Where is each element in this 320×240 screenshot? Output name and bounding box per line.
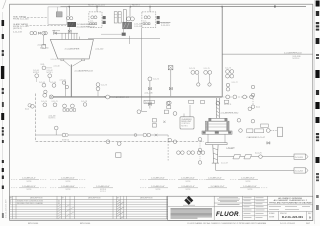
valve V22 below header bbox=[148, 103, 151, 106]
svg-text:2-CLASS-08-4": 2-CLASS-08-4" bbox=[61, 185, 75, 188]
instrument bubble FI-1 bbox=[30, 31, 33, 34]
svg-text:2-CL-68: 2-CL-68 bbox=[228, 147, 235, 149]
SK2 solenoid squares bbox=[143, 23, 145, 25]
wire SK2 out bbox=[160, 21, 171, 23]
left edge hook bbox=[3, 0, 6, 9]
SK2 valve stack (dark) bbox=[157, 16, 160, 19]
instrument bubble PI-11 bbox=[42, 66, 46, 70]
svg-text:2-CL-204: 2-CL-204 bbox=[295, 171, 303, 173]
right edge mark 6 bbox=[315, 70, 319, 78]
bubble pair XA-51 bbox=[177, 151, 181, 155]
svg-text:REVISED PER FIELD CHANGE: REVISED PER FIELD CHANGE bbox=[17, 202, 44, 205]
company address micro text bbox=[217, 197, 240, 202]
left edge mark 9 bbox=[2, 140, 4, 143]
positioner bubbles CV1 bbox=[66, 17, 69, 20]
svg-text:2-CL: 2-CL bbox=[256, 107, 260, 109]
skid box SK1 (dashed) bbox=[89, 12, 102, 28]
left edge mark 1 bbox=[2, 20, 5, 26]
svg-text:2-CLASS-13-4": 2-CLASS-13-4" bbox=[243, 185, 257, 188]
bubble LS-1 bbox=[54, 126, 58, 130]
svg-text:2-CLASS-06-4": 2-CLASS-06-4" bbox=[241, 177, 255, 180]
svg-text:NOTE 3: NOTE 3 bbox=[132, 5, 140, 7]
stems and small bubbles bbox=[197, 74, 199, 82]
revision table hatch strip left bbox=[57, 205, 74, 219]
bubble HB2 bbox=[216, 101, 220, 105]
circle CR1 bbox=[266, 129, 270, 133]
right edge mark 13 bbox=[316, 195, 319, 198]
dashed drop wire x168 bbox=[167, 135, 169, 161]
disclaimer paragraph (micro text) bbox=[171, 208, 213, 218]
continuation label row1 c6 bbox=[230, 177, 258, 183]
bubbles lower left bbox=[168, 138, 172, 142]
wire drop to SK2 bbox=[149, 7, 151, 12]
bubble TI-21 bbox=[148, 77, 152, 81]
svg-text:SCALE: SCALE bbox=[269, 212, 275, 215]
off-page connector box A bbox=[294, 154, 306, 159]
wire bottom manifold bbox=[88, 37, 160, 39]
signal wire y135 bbox=[36, 134, 168, 136]
svg-text:2-CLASS-12-4": 2-CLASS-12-4" bbox=[211, 185, 225, 188]
top signal line bbox=[61, 6, 307, 8]
continuation label row2 c1 bbox=[11, 185, 47, 191]
hand switch box HS2 bbox=[255, 129, 264, 133]
instrument bubble HV-44 bbox=[250, 95, 254, 99]
rule under title bbox=[268, 204, 314, 206]
signature field labels bbox=[244, 197, 265, 218]
box B4 bbox=[224, 100, 228, 103]
title block outer bbox=[168, 196, 313, 220]
LT seal pot box bbox=[42, 45, 46, 49]
inline device D3 bbox=[123, 10, 126, 23]
svg-text:2-CLASSIFIER-132: 2-CLASSIFIER-132 bbox=[77, 25, 96, 28]
right edge mark 10 bbox=[316, 133, 319, 135]
valve V23 bbox=[169, 87, 172, 90]
svg-text:2-CL-64: 2-CL-64 bbox=[145, 102, 152, 104]
sub caption micro text bbox=[218, 203, 240, 206]
svg-text:2-CLASS-03-4": 2-CLASS-03-4" bbox=[151, 177, 165, 180]
instrument bubble PI-15 bbox=[52, 84, 56, 88]
svg-text:2-CL-71: 2-CL-71 bbox=[52, 101, 58, 103]
svg-text:2-CL-78: 2-CL-78 bbox=[81, 101, 87, 103]
continuation label row1 c1 bbox=[11, 177, 47, 183]
NB1 inner drop wire bbox=[56, 7, 58, 12]
svg-text:2-CL-72: 2-CL-72 bbox=[153, 79, 159, 81]
signature fields grid bbox=[243, 196, 268, 220]
stacked squares S2 bbox=[152, 119, 156, 123]
svg-text:2-CL-73: 2-CL-73 bbox=[101, 84, 107, 86]
svg-text:2-CLASS-11-4": 2-CLASS-11-4" bbox=[181, 185, 195, 188]
svg-text:NONE: NONE bbox=[269, 217, 275, 219]
right edge mark 1 bbox=[316, 1, 320, 7]
bottom wire A to right edge bbox=[218, 156, 294, 158]
instrument bubble PI-17 bbox=[65, 85, 68, 88]
wire drop to pump P1 bbox=[129, 7, 131, 17]
line flag F1 bbox=[233, 155, 241, 159]
continuation label row2 c2 bbox=[50, 185, 86, 191]
svg-text:NOTE 9: NOTE 9 bbox=[100, 191, 106, 193]
svg-text:D-2-CL-224-001: D-2-CL-224-001 bbox=[282, 215, 303, 219]
project fields bbox=[269, 206, 310, 209]
svg-text:2-CL-203: 2-CL-203 bbox=[295, 157, 303, 159]
svg-text:2-CLASS-04-4": 2-CLASS-04-4" bbox=[181, 177, 195, 180]
inline device D1 bbox=[114, 12, 117, 23]
svg-text:2-CL-106: 2-CL-106 bbox=[145, 93, 153, 95]
svg-text:(NOTE 2): (NOTE 2) bbox=[13, 28, 22, 30]
bubble pair group PR1 bbox=[226, 70, 230, 74]
isolation valve V2 (bowtie) bbox=[68, 30, 71, 33]
left edge mark 6 bbox=[2, 102, 4, 107]
control valve body CV1 (dark hatched) bbox=[68, 22, 76, 27]
svg-text:2-CL-102: 2-CL-102 bbox=[95, 48, 103, 50]
LT stem wire bbox=[43, 35, 45, 45]
svg-text:2-CL-75: 2-CL-75 bbox=[204, 68, 210, 70]
small box below bbox=[116, 153, 121, 158]
level instrument LT bubble bbox=[42, 32, 46, 36]
svg-text:2-CLASS-02-4": 2-CLASS-02-4" bbox=[61, 177, 75, 180]
svg-text:2-CL: 2-CL bbox=[90, 20, 94, 22]
instrument bubble PI-18 bbox=[44, 90, 47, 93]
svg-text:2-CLASS-10-4": 2-CLASS-10-4" bbox=[151, 185, 165, 188]
svg-text:2-CL-64: 2-CL-64 bbox=[60, 79, 66, 81]
SK1 solenoid squares bbox=[90, 23, 92, 25]
instrument bubble HV-43 bbox=[243, 95, 247, 99]
outlet pipe wire bbox=[70, 65, 72, 97]
off-page connector box B bbox=[294, 168, 306, 173]
svg-text:NOTE 5: NOTE 5 bbox=[47, 72, 53, 74]
left edge mark 13 bbox=[2, 186, 4, 190]
top row box B1 bbox=[144, 100, 154, 103]
svg-text:NOTE 5: NOTE 5 bbox=[33, 72, 39, 74]
classifier drive shaft column bbox=[217, 98, 220, 118]
vessel funnel bbox=[64, 61, 82, 67]
instrument bubble LI-34 bbox=[63, 104, 67, 108]
drive base plate bbox=[202, 131, 232, 134]
right edge mark 12 bbox=[316, 173, 319, 175]
svg-text:PIPING AND INSTRUMENTATION DIA: PIPING AND INSTRUMENTATION DIAGRAM bbox=[269, 202, 312, 205]
left edge mark 3 bbox=[2, 50, 4, 52]
left edge mark 10 bbox=[2, 160, 4, 163]
instrument bubble LI-33 bbox=[53, 103, 57, 107]
bubbles below boundary left bbox=[106, 140, 110, 144]
LS-1 stem wire bbox=[55, 130, 57, 135]
instrument bubble FI-3 bbox=[44, 31, 47, 34]
junction tick T6 bbox=[274, 6, 276, 8]
svg-text:FROM 2-CL-100: FROM 2-CL-100 bbox=[13, 18, 29, 20]
svg-text:BY: BY bbox=[62, 198, 64, 200]
svg-text:D-2-CL-224-001: D-2-CL-224-001 bbox=[280, 223, 296, 225]
right edge mark 14 bbox=[316, 205, 319, 210]
wire drop to SK1 bbox=[96, 7, 98, 12]
line flag F2 bbox=[244, 155, 252, 159]
vessel bottom tabs bbox=[61, 59, 64, 61]
svg-text:2-CLASSIFIER-105: 2-CLASSIFIER-105 bbox=[112, 96, 130, 99]
riser wire to top line bbox=[221, 7, 223, 97]
svg-text:2-CL-77: 2-CL-77 bbox=[232, 82, 238, 84]
wire drop x141.5 to panel bbox=[141, 28, 143, 112]
svg-text:1: 1 bbox=[10, 203, 11, 205]
junction box JB1 bbox=[122, 33, 126, 36]
hand switch box HS1 bbox=[247, 129, 253, 133]
right edge mark 3 bbox=[316, 22, 319, 24]
revision table column lines bbox=[13, 196, 167, 219]
svg-text:2-CL-66: 2-CL-66 bbox=[50, 82, 56, 84]
drive mounting bar bbox=[209, 118, 227, 121]
continuation label row1 c2 bbox=[50, 177, 86, 183]
continuation label row2 c4 bbox=[140, 185, 168, 191]
dashed wire to local panel bbox=[270, 130, 277, 132]
bubble pair group PL2 bbox=[204, 71, 208, 75]
right edge mark 7 bbox=[316, 90, 319, 95]
SK2 instrument bubbles bbox=[144, 16, 147, 19]
svg-text:2-CLASSIFIER-103: 2-CLASSIFIER-103 bbox=[75, 69, 94, 72]
junction tick T5 bbox=[221, 6, 222, 8]
svg-text:NOTE 4: NOTE 4 bbox=[293, 58, 300, 60]
manifold valve V4 bbox=[38, 32, 41, 34]
wire stub y34 bbox=[101, 33, 122, 35]
revision table row lines bbox=[10, 202, 168, 216]
control panel U1 bbox=[180, 117, 194, 129]
branch wire y54 to right edge bbox=[222, 53, 313, 55]
small box below bbox=[167, 106, 171, 109]
square S1 bbox=[164, 110, 168, 114]
bubble left of junction bbox=[43, 93, 47, 97]
right edge mark 11 bbox=[316, 157, 320, 163]
box B3 bbox=[200, 101, 204, 104]
panel stem wires bbox=[183, 114, 185, 117]
svg-text:B8Y-15000: B8Y-15000 bbox=[28, 223, 39, 225]
main header wire (double line) bbox=[51, 95, 222, 97]
svg-text:2-CL-59: 2-CL-59 bbox=[51, 59, 57, 61]
svg-text:2-CL: 2-CL bbox=[143, 20, 147, 22]
classifier vessel (trapezoid) bbox=[50, 39, 93, 59]
svg-text:2-CL-135: 2-CL-135 bbox=[38, 45, 47, 47]
instrument bubble LI-31 bbox=[31, 104, 35, 108]
continuation label row1 c4 bbox=[178, 177, 205, 183]
svg-text:2-CL-67: 2-CL-67 bbox=[221, 163, 228, 165]
svg-text:FLUOR DANIEL INC AG CHEMCO C: FLUOR DANIEL INC AG CHEMCO CLASSIFIER NO… bbox=[188, 222, 267, 225]
bubbles right mid bbox=[226, 83, 230, 87]
junction circle with X bbox=[49, 95, 53, 99]
skid box SK2 (dashed) bbox=[142, 12, 156, 28]
instrument bubble HV-42 bbox=[233, 95, 237, 99]
bubble pair XA-53 bbox=[197, 151, 201, 155]
left edge mark 12 bbox=[2, 176, 4, 180]
left scan edge line bbox=[2, 12, 4, 218]
svg-text:DESCRIPTION: DESCRIPTION bbox=[88, 198, 101, 200]
pump P1 body (shaded) bbox=[123, 22, 132, 29]
bubble pair group PL1 bbox=[191, 71, 195, 75]
continuation label row2 c3 bbox=[93, 185, 113, 193]
junction tick T1 bbox=[69, 6, 70, 8]
svg-text:B8Y-15000: B8Y-15000 bbox=[80, 223, 91, 225]
svg-text:2-CL-113: 2-CL-113 bbox=[161, 25, 170, 27]
bubble MB2 bbox=[173, 112, 177, 116]
flow element FE on header bbox=[106, 95, 110, 99]
instrument bubble PI-13 bbox=[48, 74, 52, 78]
svg-text:2-CLASSIFIER-104: 2-CLASSIFIER-104 bbox=[284, 51, 302, 54]
svg-text:NOTE 3 2-CL-101: NOTE 3 2-CL-101 bbox=[88, 5, 106, 7]
box with X bbox=[168, 66, 173, 70]
interlock squares grid bbox=[63, 109, 76, 111]
right edge mark 9 bbox=[316, 117, 320, 123]
logo caption bbox=[183, 204, 195, 207]
bubble pair group PR2 bbox=[226, 74, 230, 78]
bubble on signal wire x135 bbox=[134, 134, 137, 137]
right edge mark 8 bbox=[315, 102, 319, 109]
svg-text:2-CL-71: 2-CL-71 bbox=[255, 152, 262, 154]
drive lower plate bbox=[206, 143, 227, 145]
right edge mark 2 bbox=[316, 11, 319, 16]
wire drop x65.3 bbox=[64, 81, 66, 97]
bubble RM1 bbox=[239, 129, 243, 133]
bubble pair on signal wire bbox=[143, 133, 147, 137]
svg-text:2-CL-76: 2-CL-76 bbox=[225, 68, 231, 70]
left edge mark 8 bbox=[2, 127, 4, 129]
rule under address bbox=[214, 202, 242, 204]
svg-text:D-2-CL-224-001 B8Y: D-2-CL-224-001 B8Y bbox=[6, 199, 8, 218]
bottom wire B to right edge bbox=[216, 169, 295, 171]
drive motor body bbox=[206, 121, 230, 131]
left edge mark 14 bbox=[2, 213, 4, 218]
title block divider 1 bbox=[213, 196, 215, 220]
svg-text:2-CL: 2-CL bbox=[25, 109, 29, 111]
bubble on wire A bbox=[259, 155, 263, 159]
drive pedestal bbox=[212, 145, 219, 164]
chain bubbles at x253 bbox=[251, 85, 255, 89]
left edge mark 5 bbox=[2, 88, 4, 90]
valve V31 (bowtie) bbox=[267, 142, 270, 145]
svg-text:2-CL-111: 2-CL-111 bbox=[134, 26, 142, 28]
instrument bubble PI-12 bbox=[35, 74, 39, 78]
instrument bubble LI-35 bbox=[71, 104, 75, 108]
wire drop x130 stub bbox=[129, 36, 131, 44]
instrument bubble PI-16 bbox=[62, 81, 65, 84]
svg-text:NOTE 5: NOTE 5 bbox=[49, 118, 56, 120]
title block divider 3 bbox=[267, 196, 269, 220]
svg-text:2-CLASS-07-4": 2-CLASS-07-4" bbox=[22, 185, 36, 188]
svg-text:NOTE 10: NOTE 10 bbox=[62, 139, 69, 141]
SK1 instrument bubbles bbox=[91, 16, 94, 19]
leader wire B bbox=[26, 25, 66, 27]
svg-text:DESCRIPTION: DESCRIPTION bbox=[140, 198, 153, 200]
instrument bubble HV-41 bbox=[226, 95, 230, 99]
svg-text:2-CL: 2-CL bbox=[41, 64, 45, 66]
continuation label row1 c3 bbox=[140, 177, 176, 180]
manifold wire bbox=[68, 27, 70, 33]
right scan edge line bbox=[314, 0, 316, 224]
company logo (diamond) bbox=[184, 196, 193, 205]
junction tick T3 bbox=[130, 6, 131, 8]
svg-text:BY: BY bbox=[117, 198, 119, 200]
bubble below right bbox=[168, 101, 172, 105]
svg-text:2-CL-70: 2-CL-70 bbox=[41, 101, 47, 103]
left edge mark 4 bbox=[1, 66, 4, 79]
wire drop to CV1 bbox=[68, 7, 70, 17]
svg-text:2-CLASS-01-4": 2-CLASS-01-4" bbox=[22, 177, 36, 180]
arrow stub left of CV1 bbox=[52, 30, 60, 32]
revision table header row bbox=[10, 199, 168, 201]
svg-text:2-CLASSIFIER: 2-CLASSIFIER bbox=[65, 48, 80, 51]
revision table hatch strip right bbox=[117, 200, 124, 219]
shaded box inside NB1 bbox=[56, 12, 62, 17]
continuation label row2 c5 bbox=[178, 185, 198, 191]
right edge mark 5 bbox=[316, 54, 319, 56]
bubble below header x85 bbox=[83, 103, 87, 107]
mid vertical wire v150 bbox=[149, 77, 151, 109]
svg-text:NOTE 11: NOTE 11 bbox=[224, 104, 231, 106]
junction tick T4 bbox=[149, 6, 150, 8]
junction tick T2 bbox=[96, 6, 97, 8]
valve on signal wire bbox=[62, 133, 66, 137]
bubble at left edge bbox=[28, 104, 31, 107]
mid vertical wire v171 bbox=[170, 70, 172, 97]
svg-text:2-CLASS-09-4": 2-CLASS-09-4" bbox=[96, 185, 110, 188]
svg-text:RV: RV bbox=[10, 198, 12, 200]
continuation label row2 c7 bbox=[240, 185, 268, 191]
bubble MB1 bbox=[137, 110, 141, 114]
bubble pair XA-52 bbox=[187, 151, 191, 155]
bubble RM0 bbox=[248, 107, 252, 111]
svg-text:2-CLASS-05-4": 2-CLASS-05-4" bbox=[208, 177, 222, 180]
manifold valve V3 bbox=[54, 32, 57, 34]
left edge mark 2 bbox=[2, 34, 4, 39]
right edge mark 4 bbox=[316, 38, 320, 44]
local panel LP1 bbox=[278, 127, 283, 137]
svg-text:2-CL-133: 2-CL-133 bbox=[13, 32, 23, 34]
junction x mark bbox=[163, 121, 165, 123]
continuation label row1 c5 bbox=[206, 177, 225, 180]
bubble pair at x98 bbox=[96, 83, 100, 87]
svg-text:CLASSIFIER 2-CL-67: CLASSIFIER 2-CL-67 bbox=[247, 136, 265, 139]
svg-text:DESCRIPTION: DESCRIPTION bbox=[30, 198, 43, 200]
pump P1 bubbles bbox=[127, 17, 131, 21]
inline device D2 bbox=[118, 12, 121, 23]
instrument bubble PI-14 bbox=[42, 83, 46, 87]
left edge mark 7 bbox=[1, 113, 4, 120]
instrument bubble FI-2 bbox=[33, 31, 36, 34]
svg-text:FLUOR.: FLUOR. bbox=[216, 211, 240, 218]
valve V21 bbox=[148, 87, 151, 90]
title block divider 2 bbox=[242, 196, 244, 220]
junction X on signal wire bbox=[155, 134, 157, 136]
box B2 bbox=[189, 100, 194, 103]
svg-text:2-CLASSIFIER-VM-2: 2-CLASSIFIER-VM-2 bbox=[221, 111, 239, 114]
right mid cluster bubbles bbox=[237, 119, 241, 123]
package boundary dashed wire bbox=[35, 94, 37, 142]
svg-text:2-CL-74: 2-CL-74 bbox=[189, 68, 195, 70]
wire manifold to vessel pipes bbox=[62, 33, 80, 39]
leader wire A bbox=[24, 17, 48, 19]
instrument bubble LI-32 bbox=[43, 103, 47, 107]
svg-text:NOTE 6: NOTE 6 bbox=[181, 125, 188, 127]
bubbles chain left of pedestal bbox=[198, 138, 202, 142]
revision table frame bbox=[10, 196, 168, 219]
left edge mark 11 bbox=[2, 168, 4, 172]
note box NB1 bbox=[48, 7, 67, 24]
continuation label row2 c6 bbox=[208, 185, 227, 188]
svg-text:2-CL-65: 2-CL-65 bbox=[39, 82, 45, 84]
boxed label pair BL1 bbox=[261, 124, 269, 127]
bubble HB1 bbox=[166, 101, 170, 105]
svg-text:2-CL-60: 2-CL-60 bbox=[54, 66, 60, 68]
SK1 valve stack (dark) bbox=[103, 16, 106, 19]
header dashed extension wire bbox=[222, 96, 253, 98]
